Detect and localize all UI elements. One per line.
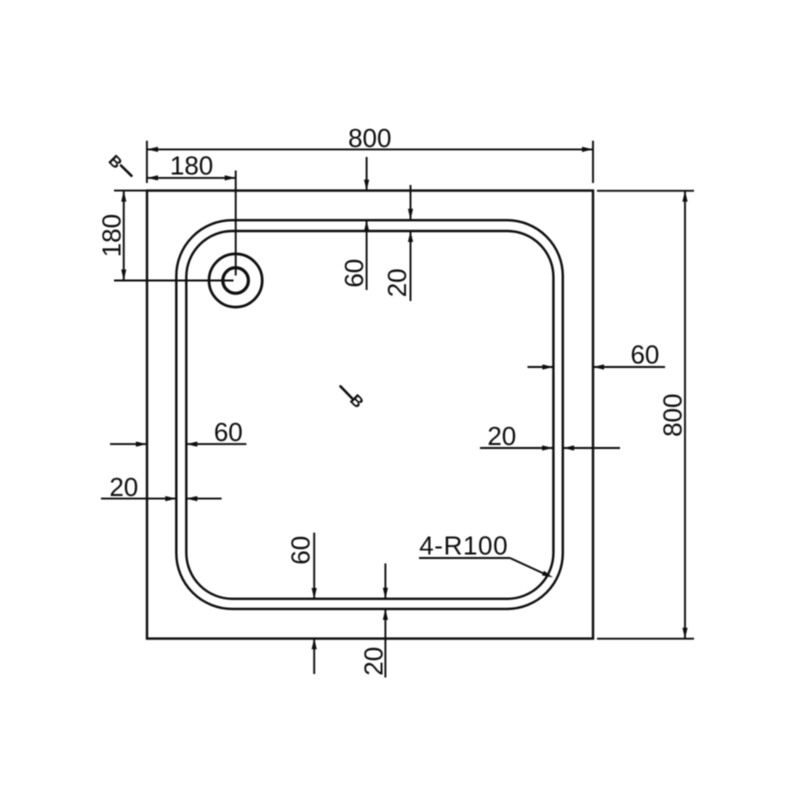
dim 180 top line — [147, 177, 236, 179]
ext line top-right — [592, 141, 594, 183]
dim 60 top tail above — [366, 157, 368, 191]
drain outer circle — [209, 254, 262, 307]
ext line to circle center horizontal — [114, 280, 234, 282]
section marker B center — [340, 386, 366, 412]
ext line right top — [597, 190, 694, 192]
ext line to circle center vertical — [235, 171, 237, 276]
outer square tray edge — [147, 191, 593, 639]
svg-text:800: 800 — [348, 123, 391, 153]
dim 20 top tail above — [410, 185, 412, 220]
svg-text:60: 60 — [214, 417, 243, 447]
svg-text:4-R100: 4-R100 — [419, 531, 508, 561]
dim 20 right tails — [480, 447, 553, 449]
ext line right bottom — [597, 638, 694, 640]
svg-text:60: 60 — [630, 340, 659, 370]
dim 60 top tail below — [366, 220, 368, 290]
ext line left top — [114, 190, 147, 192]
svg-text:20: 20 — [358, 647, 388, 676]
ext line top-left — [146, 141, 148, 183]
svg-text:20: 20 — [487, 421, 516, 451]
dim 60 right tails — [528, 366, 554, 368]
svg-text:800: 800 — [657, 394, 687, 437]
dimension labels — [96, 123, 687, 676]
svg-text:20: 20 — [382, 268, 412, 297]
svg-text:180: 180 — [170, 151, 213, 181]
svg-text:60: 60 — [286, 536, 316, 565]
leader 4-R100 diagonal — [510, 558, 548, 576]
dim 20 bottom tails — [384, 563, 386, 598]
dim 180 left vertical line — [123, 191, 125, 281]
dim 60 left tails — [110, 443, 147, 445]
dim 800 top line — [147, 148, 593, 150]
svg-text:60: 60 — [339, 259, 369, 288]
leader 4-R100 underline — [419, 557, 510, 559]
rim outer rounded rect — [176, 220, 563, 609]
dim 800 right vertical line — [684, 191, 686, 639]
drain inner circle — [223, 268, 249, 294]
dim 60 bottom tails — [313, 533, 315, 599]
section marker B top-left — [105, 152, 132, 175]
dim 20 left tails — [101, 498, 176, 500]
svg-text:20: 20 — [109, 472, 138, 502]
dim 20 top tail below — [410, 231, 412, 301]
svg-text:180: 180 — [96, 214, 126, 257]
dimension arrowheads — [121, 147, 687, 650]
rim inner rounded rect — [186, 231, 553, 599]
